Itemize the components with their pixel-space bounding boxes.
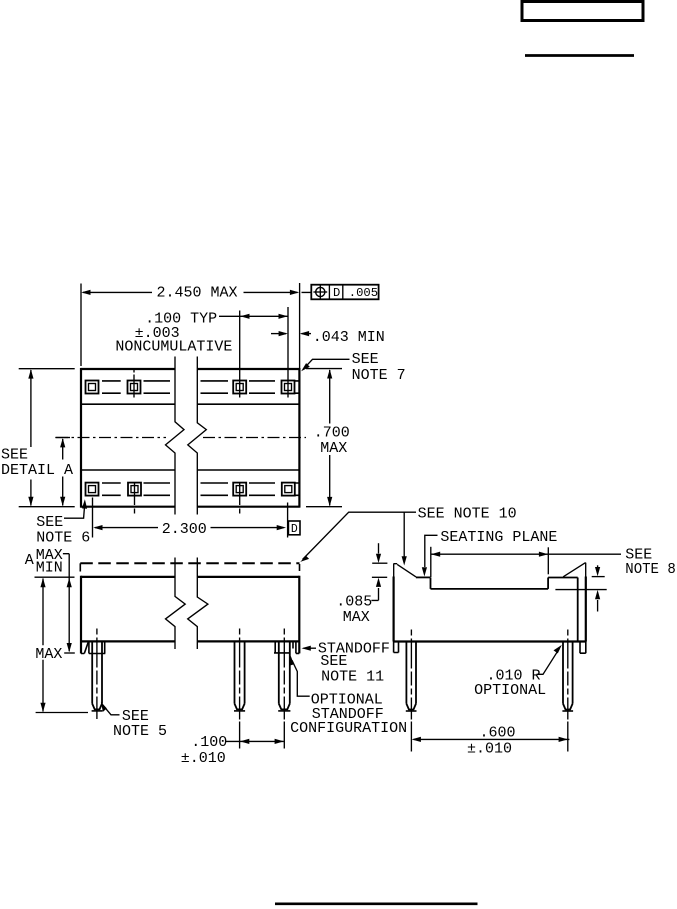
- svg-text:.043 MIN: .043 MIN: [313, 329, 385, 346]
- footer line (bottom): [275, 902, 478, 905]
- pin 1 standoff collar: [89, 641, 105, 653]
- leader OPTIONAL STANDOFF CONFIGURATION: [289, 656, 407, 737]
- datum box D: [288, 521, 300, 536]
- svg-text:SEE: SEE: [352, 351, 379, 368]
- pin 3 centerline: [283, 629, 285, 720]
- end view recess: [431, 577, 549, 589]
- left overall height dimension: [28, 369, 33, 506]
- svg-text:D: D: [291, 523, 298, 536]
- svg-text:SEE: SEE: [1, 446, 28, 463]
- svg-text:MAX: MAX: [320, 440, 347, 457]
- svg-text:±.010: ±.010: [467, 741, 512, 758]
- svg-text:NOTE 6: NOTE 6: [36, 529, 90, 546]
- end view bottom edge: [394, 640, 586, 642]
- side view left skirt foot: [81, 642, 88, 653]
- svg-text:MIN: MIN: [36, 560, 63, 577]
- svg-text:D: D: [333, 286, 340, 300]
- pin 2 centerline extension: [239, 722, 241, 749]
- end view left pin: [406, 642, 417, 712]
- svg-text:2.450 MAX: 2.450 MAX: [157, 285, 238, 302]
- pin 2 centerline: [239, 629, 241, 720]
- top view break line left: [166, 357, 185, 515]
- dimension .700 MAX extension bottom: [306, 506, 342, 508]
- leader .010 R OPTIONAL: [474, 645, 562, 699]
- end view left pin centerline extension: [410, 722, 412, 752]
- end view right edge: [585, 563, 587, 642]
- end view right pin: [562, 642, 573, 712]
- leader SEATING PLANE: [422, 529, 558, 577]
- seating plane dimension extension right: [547, 547, 549, 574]
- title block box (top right): [522, 2, 643, 21]
- contact square bottom row 1: [86, 483, 99, 496]
- dimension .100 TYP extension line through square 3: [239, 311, 241, 398]
- dimension A body height: [25, 547, 72, 653]
- end view left pin centerline: [410, 630, 412, 720]
- contact square top row 4: [282, 381, 295, 394]
- svg-text:MAX: MAX: [35, 646, 62, 663]
- dimension 2.450 MAX extension line left: [80, 284, 82, 367]
- leader SEE NOTE 6: [36, 499, 90, 546]
- side view top edge extension (left): [35, 576, 75, 578]
- leader SEE NOTE 10: [300, 505, 516, 565]
- left extension line centerline: [55, 437, 70, 439]
- header underline: [525, 54, 634, 57]
- dimension .100 +/-.010 (pin spacing): [181, 734, 284, 767]
- svg-text:OPTIONAL: OPTIONAL: [474, 682, 546, 699]
- dimension 2.300 extension line left: [92, 498, 94, 538]
- svg-text:SEE NOTE 10: SEE NOTE 10: [418, 505, 517, 522]
- svg-text:MAX: MAX: [343, 609, 370, 626]
- side view right skirt foot: [296, 641, 299, 653]
- top view horizontal centerline: [56, 437, 306, 439]
- svg-text:NOTE 11: NOTE 11: [321, 669, 384, 686]
- pin 2 (side view): [234, 641, 245, 711]
- top view inner band line lower: [81, 469, 299, 471]
- svg-text:SEATING PLANE: SEATING PLANE: [440, 529, 557, 546]
- dimension .100 TYP extension line through square 4: [287, 307, 289, 398]
- end view left ledge: [416, 576, 431, 578]
- left extension line top: [19, 368, 75, 370]
- side view right edge: [298, 576, 300, 654]
- dimension 2.450 MAX extension line right: [299, 283, 301, 369]
- pin 3 (side view): [278, 641, 290, 711]
- top view inner band line upper: [81, 403, 299, 405]
- svg-text:NOTE 8: NOTE 8: [625, 561, 676, 578]
- svg-text:±.010: ±.010: [181, 750, 226, 767]
- end view right wall chamfer: [563, 563, 586, 577]
- bottom row contact rails: [102, 483, 299, 495]
- svg-text:.600: .600: [480, 724, 516, 741]
- top row contact rails: [102, 381, 299, 393]
- side view left edge: [80, 576, 82, 654]
- pin 3 optional standoff collar: [274, 641, 293, 653]
- dimension .043 MIN: [271, 329, 385, 346]
- dimension .700 MAX: [314, 369, 350, 506]
- end view right ledge: [548, 577, 578, 579]
- end view right foot: [580, 642, 586, 654]
- svg-text:NOTE 5: NOTE 5: [113, 723, 167, 740]
- centerline through bottom square 3: [239, 483, 241, 514]
- svg-text:DETAIL A: DETAIL A: [1, 462, 73, 479]
- seating plane dimension extension left: [430, 547, 432, 577]
- leader SEE NOTE 5: [101, 702, 167, 740]
- pin 3 centerline extension: [283, 722, 285, 749]
- label NONCUMULATIVE: [115, 339, 232, 356]
- left extension line bottom: [19, 506, 75, 508]
- end view left edge: [393, 564, 395, 642]
- contact square bottom row 3: [233, 483, 246, 496]
- dimension .600 +/-.010: [412, 724, 570, 757]
- contact square bottom row 4: [282, 483, 295, 496]
- pin 1 centerline: [96, 629, 98, 720]
- top view body outline: [81, 368, 300, 508]
- contact square bottom row 2: [128, 483, 141, 496]
- dimension .100 TYP: [145, 311, 288, 328]
- side view break line right: [188, 558, 208, 650]
- svg-text:SEE: SEE: [320, 653, 347, 670]
- side view top edge: [81, 576, 300, 578]
- dimension 2.300 extension line right: [287, 503, 289, 538]
- centerline through bottom square 2: [134, 483, 136, 514]
- leader SEE NOTE 7: [301, 351, 405, 384]
- svg-text:NONCUMULATIVE: NONCUMULATIVE: [115, 339, 232, 356]
- dimension .700 MAX extension top: [306, 368, 342, 370]
- dimension 2.300: [93, 521, 286, 538]
- left half height dimension: [60, 438, 65, 506]
- pin 1 (side view): [92, 641, 103, 711]
- end view left foot: [394, 642, 399, 653]
- contact square top row 3: [233, 381, 246, 394]
- recess depth arrows (right side): [555, 565, 606, 611]
- seating plane dimension and leader SEE NOTE 8: [431, 546, 676, 577]
- side view bottom edge: [81, 640, 299, 642]
- centerline through top square 2: [133, 370, 135, 398]
- side view break line left: [166, 558, 186, 650]
- dimension overall MAX height: [35, 578, 62, 712]
- svg-text:A: A: [25, 552, 34, 569]
- svg-text:2.300: 2.300: [162, 521, 207, 538]
- svg-text:.100: .100: [191, 734, 227, 751]
- feature control frame (position D .005): [311, 285, 378, 301]
- leader STANDOFF SEE NOTE 11: [302, 641, 390, 686]
- dimension 2.450 MAX: [81, 285, 311, 302]
- svg-text:.005: .005: [349, 286, 378, 300]
- label ±.003: [135, 325, 180, 342]
- dimension .085 MAX: [336, 543, 387, 626]
- label SEE DETAIL A: [1, 446, 73, 479]
- end view left wall tip and chamfer: [394, 564, 416, 577]
- end view right pin centerline: [567, 630, 569, 720]
- end view right pin centerline extension: [567, 722, 569, 752]
- end view right wall inner face: [577, 578, 579, 642]
- contact square top row 1: [86, 381, 99, 394]
- svg-text:CONFIGURATION: CONFIGURATION: [290, 720, 407, 737]
- pin tip extension line (left): [36, 712, 88, 714]
- svg-text:NOTE 7: NOTE 7: [352, 367, 406, 384]
- contact square top row 2: [128, 381, 141, 394]
- top view break line right: [188, 357, 207, 515]
- seating plane extension tick (left): [64, 652, 75, 654]
- side view dashed max-height line: [80, 563, 299, 571]
